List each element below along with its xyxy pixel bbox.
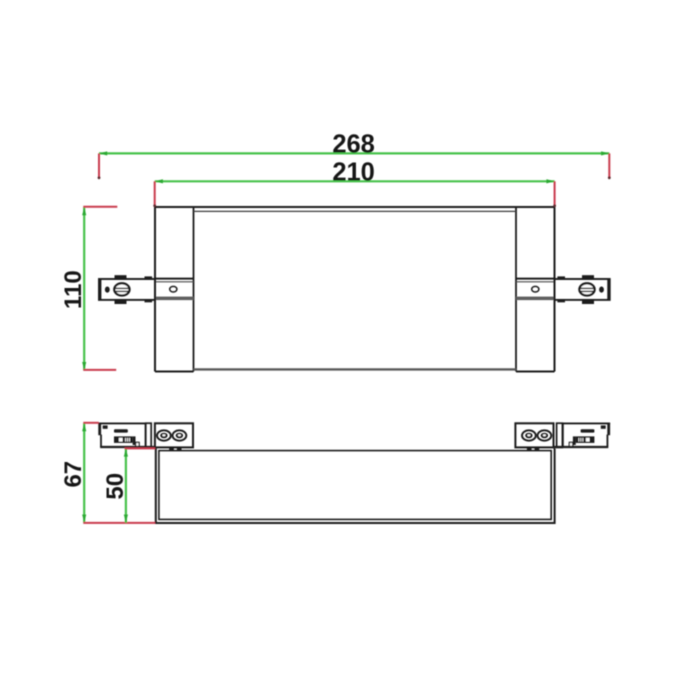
dimension 50	[102, 448, 155, 522]
right adapter neck strip (bottom view)	[557, 423, 563, 447]
svg-text:268: 268	[332, 131, 375, 159]
dimension 268	[99, 131, 609, 178]
top view left end plate inner edge	[193, 207, 195, 372]
left terminal block (bottom view)	[155, 423, 193, 450]
right track adapter (top view)	[555, 275, 611, 304]
svg-text:110: 110	[60, 270, 87, 309]
top view body bottom edge (gray)	[194, 368, 517, 370]
dimension 210	[155, 159, 555, 206]
left track adapter (top view)	[98, 275, 155, 304]
svg-text:67: 67	[60, 461, 87, 488]
right mounting band through plate	[516, 279, 555, 301]
top view inner top edge line	[194, 210, 517, 212]
left mounting band through plate	[155, 279, 194, 301]
top view right end plate inner edge	[515, 207, 517, 372]
right terminal block (bottom view)	[515, 423, 553, 450]
top view body outline	[155, 207, 555, 372]
right track adapter (bottom view)	[553, 423, 610, 448]
bottom view body outline	[156, 448, 555, 523]
dimension 110	[60, 207, 118, 370]
svg-text:50: 50	[102, 473, 129, 500]
svg-text:210: 210	[332, 159, 375, 187]
left track adapter (bottom view)	[98, 423, 155, 448]
left adapter neck strip (bottom view)	[146, 423, 152, 447]
dimension 67	[60, 423, 155, 523]
extension line end tips	[98, 176, 611, 207]
bottom view inner channel line	[159, 451, 551, 520]
